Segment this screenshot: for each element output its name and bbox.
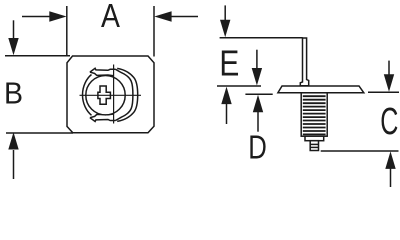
receptacle outer ring right arc (117, 68, 138, 121)
cross slot in receptacle center (98, 86, 111, 104)
stud flange (head) (278, 86, 364, 93)
thread lines (303, 96, 326, 134)
extension line at flange top (for E/D) (217, 85, 261, 87)
dimension D top arrowhead (252, 68, 262, 86)
dimension A right arrowhead (154, 11, 171, 21)
dimension C bottom arrowhead (385, 151, 395, 169)
stud stem (wing) (300, 38, 308, 86)
dimension C top leader (388, 61, 390, 75)
extension line B bottom (plate bottom edge extended left) (6, 132, 73, 134)
dimension D bottom arrowhead (253, 95, 263, 113)
dimension A left leader (22, 16, 51, 18)
nub lines (310, 143, 318, 145)
retaining-ring bottom tab (90, 114, 116, 122)
dimension E bottom arrowhead (221, 87, 231, 105)
extension line C bottom (stud tip extended right) (321, 150, 399, 152)
extension line A right (plate right edge extended up) (153, 6, 155, 57)
receptacle plate (chamfered square) (67, 56, 154, 133)
dimension B top arrowhead (8, 38, 18, 55)
dimension D top leader (256, 50, 258, 69)
receptacle inner circle (grommet) (86, 76, 125, 115)
dimension B bottom arrowhead (8, 132, 18, 149)
vertical centerline (113, 65, 115, 124)
svg-text:A: A (101, 0, 120, 35)
svg-text:D: D (248, 130, 267, 167)
stud bottom nub (310, 141, 318, 151)
dimension A left arrowhead (49, 11, 66, 21)
horizontal centerline (80, 94, 142, 96)
extension line C top (flange bottom extended right) (368, 91, 399, 93)
dimension C bottom leader (390, 168, 392, 187)
stud step below threads (305, 136, 324, 141)
svg-text:C: C (380, 100, 398, 142)
dimension E bottom leader (226, 103, 228, 124)
extension line E top (stem top extended left) (220, 37, 303, 39)
dimension B top leader (13, 20, 15, 39)
receptacle ring inner arc (right, flows from tab edges) (116, 69, 133, 120)
dimension A right leader (170, 16, 198, 18)
dimension C top arrowhead (384, 74, 394, 92)
dimension D bottom leader (257, 112, 259, 132)
extension line B top (plate top edge extended left) (5, 55, 70, 57)
dimension E top leader (224, 5, 226, 21)
dimension E top arrowhead (220, 20, 230, 38)
stud threaded body (301, 93, 327, 136)
extension line A left (plate left edge extended up) (66, 6, 68, 57)
retaining-ring top tab (90, 68, 116, 76)
svg-text:E: E (219, 44, 239, 84)
receptacle outer ring left arc (83, 75, 92, 116)
svg-text:B: B (4, 76, 23, 110)
extension line D bottom (flange bottom extended left) (245, 93, 272, 95)
dimension B bottom leader (13, 150, 15, 179)
